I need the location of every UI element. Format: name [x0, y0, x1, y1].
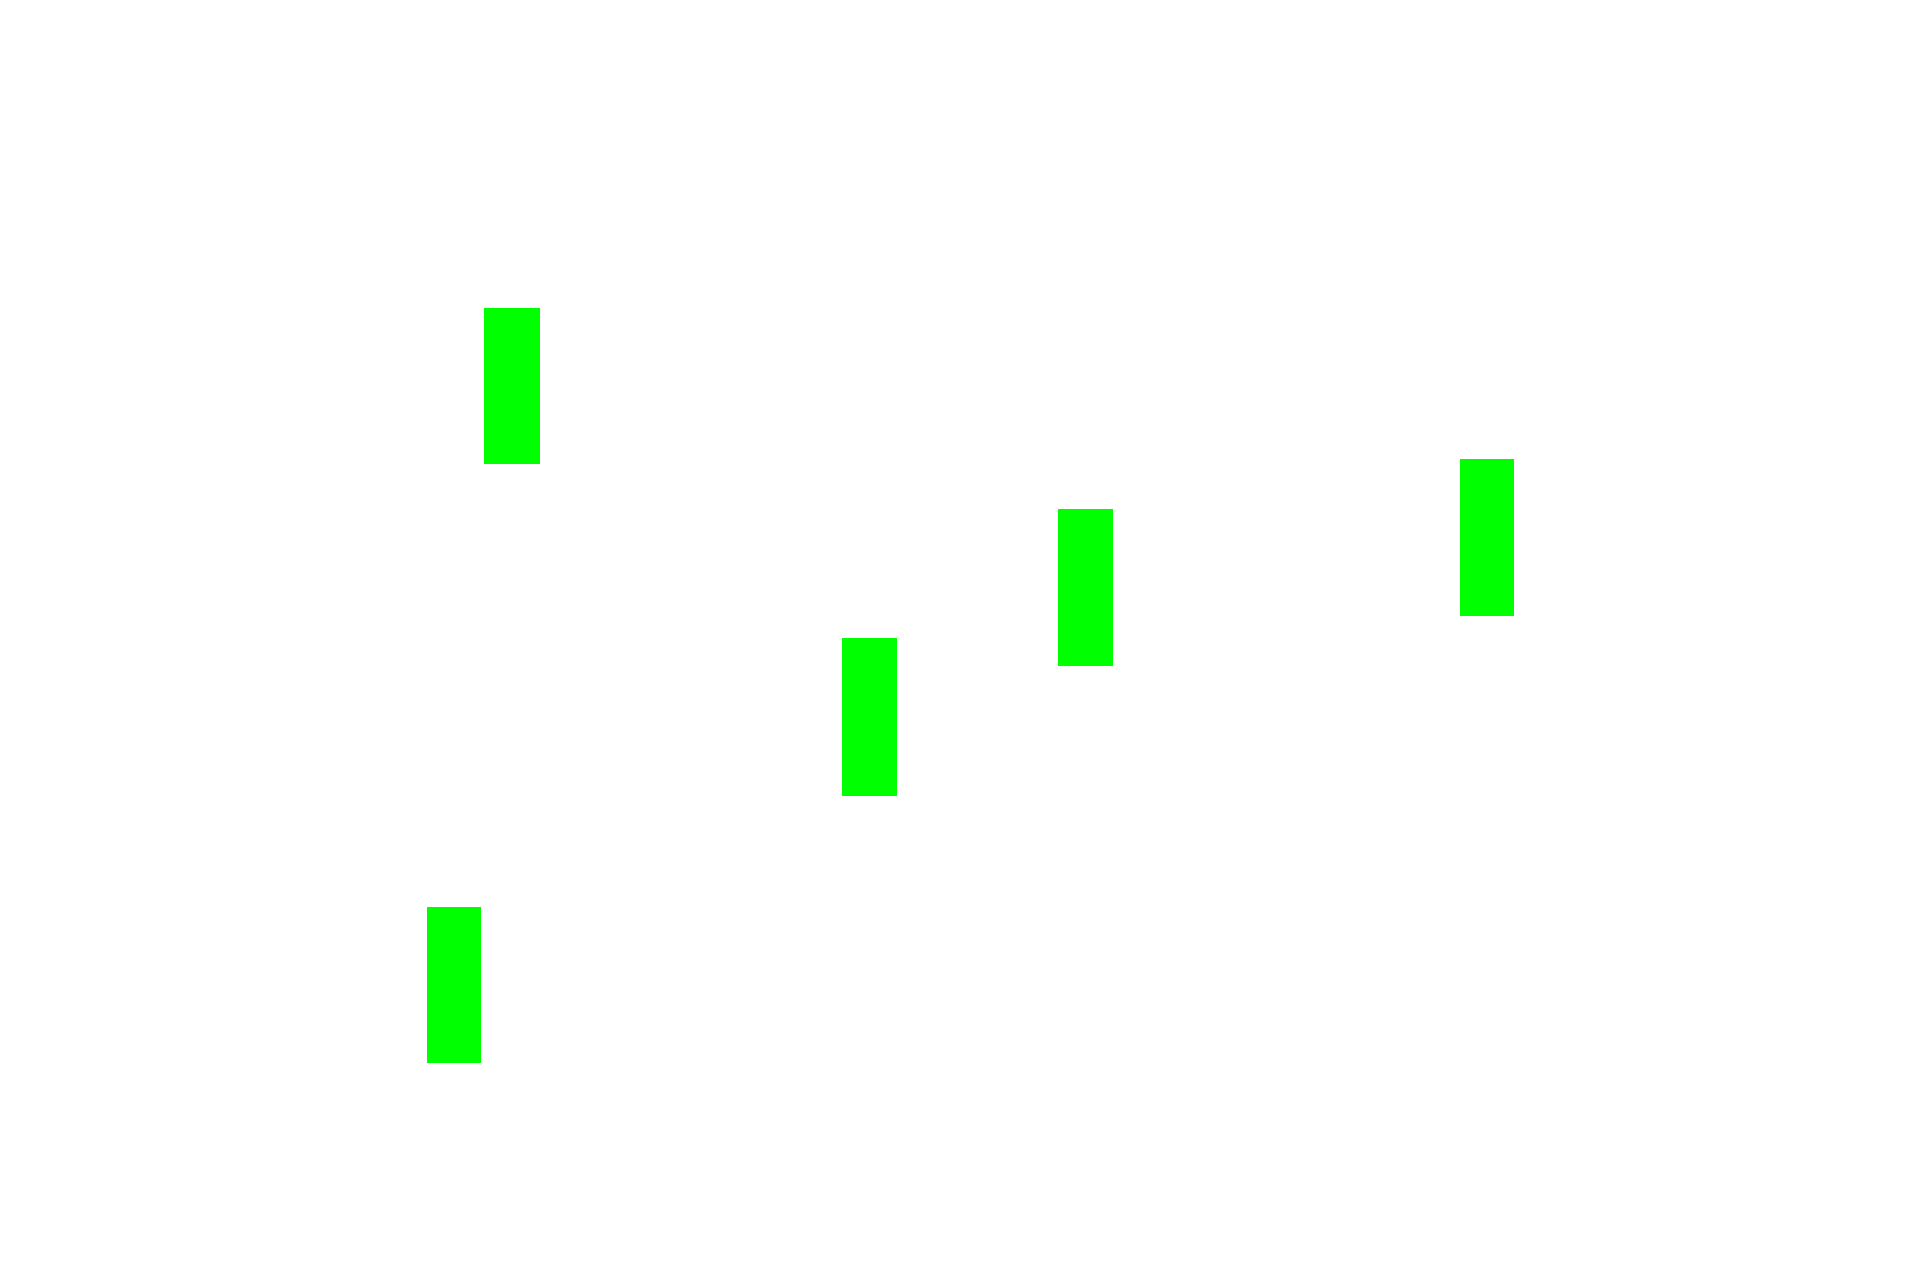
candle body 2 (right green up-candle) — [1460, 459, 1514, 616]
candle body 4 (center green up-candle) — [842, 638, 897, 796]
candle body 5 (lower-left green up-candle) — [427, 907, 481, 1063]
candle body 1 (upper-left green up-candle) — [484, 308, 540, 464]
candle body 3 (center-right green up-candle) — [1058, 509, 1113, 666]
